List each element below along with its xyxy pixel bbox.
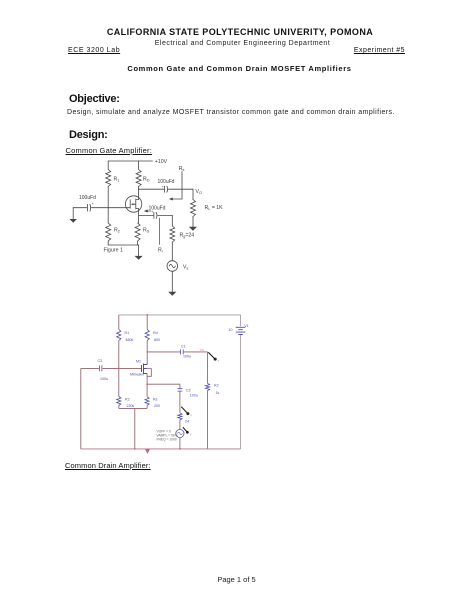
svg-text:Rg=24: Rg=24 [180, 233, 195, 239]
svg-text:24: 24 [185, 420, 189, 424]
ground below RL [189, 227, 197, 231]
wire cap to Vo node [168, 188, 193, 190]
wire Rg to source Vs [171, 242, 173, 261]
svg-text:230k: 230k [127, 404, 135, 408]
svg-text:FREQ = 1000: FREQ = 1000 [157, 438, 177, 442]
ground 0 pspice [145, 449, 150, 454]
svg-text:R2: R2 [125, 398, 130, 402]
battery V1 [236, 327, 246, 334]
experiment label [354, 47, 405, 54]
svg-text:v: v [190, 413, 192, 417]
wire Rs branch [146, 384, 148, 408]
transistor gate bar [129, 200, 131, 208]
ground input [70, 219, 77, 223]
wire gate left [91, 207, 130, 209]
resistor Rd pspice [145, 330, 149, 341]
svg-text:C3: C3 [98, 359, 103, 363]
wire bottom rail [81, 448, 241, 450]
probe vs marker [183, 427, 187, 431]
svg-text:RL = 1K: RL = 1K [205, 205, 224, 211]
svg-text:800: 800 [154, 338, 160, 342]
transistor bulk arrow [132, 203, 136, 205]
capacitor C2 [178, 389, 183, 391]
wire RL to ground [192, 217, 194, 228]
svg-text:1k: 1k [216, 391, 220, 395]
wire top rail [119, 314, 241, 316]
transistor M1 circle [125, 196, 141, 212]
resistor R2 pspice [117, 397, 121, 406]
Design heading [69, 129, 108, 141]
svg-text:R2: R2 [214, 384, 219, 388]
junction dot gate node [118, 368, 120, 370]
wire top rail +10V [108, 160, 152, 162]
resistor R2 load pspice [205, 383, 209, 390]
svg-text:Rd: Rd [153, 331, 158, 335]
transistor M1 pspice [142, 364, 148, 375]
svg-text:Vo: Vo [200, 348, 204, 352]
wire source down to Rs [138, 215, 140, 223]
wire cap to Rg corner [158, 215, 173, 226]
probe source marker [181, 407, 187, 413]
capacitor source 100uFd [153, 212, 155, 218]
svg-text:C2: C2 [186, 389, 191, 393]
svg-text:v: v [190, 432, 192, 436]
svg-text:Figure 1: Figure 1 [104, 248, 123, 254]
svg-text:480k: 480k [126, 338, 134, 342]
svg-text:10: 10 [229, 328, 233, 332]
wire Rs bottom [137, 241, 139, 245]
wire bottom rail [108, 244, 138, 246]
Objective heading [69, 93, 120, 105]
svg-text:R1: R1 [125, 331, 130, 335]
header title [0, 27, 474, 37]
wire input to C3 [81, 367, 99, 369]
course label [68, 47, 120, 54]
wire Vo down to RL [192, 189, 194, 199]
resistor Rs pspice [145, 397, 149, 406]
svg-text:200: 200 [154, 404, 160, 408]
svg-text:+10V: +10V [155, 159, 168, 165]
svg-text:+: + [151, 210, 153, 214]
wire output [147, 351, 207, 353]
annotation source arrow [147, 210, 151, 212]
junction dot source node [146, 383, 148, 385]
svg-text:Rs: Rs [153, 398, 158, 402]
wire load branch [207, 352, 209, 449]
svg-text:VO: VO [196, 189, 202, 195]
svg-text:M1: M1 [136, 360, 141, 364]
common drain caption [65, 461, 151, 470]
resistor Rg=24 [170, 226, 175, 242]
wire left input vertical [80, 368, 82, 449]
wire source node [147, 374, 180, 413]
annotation Rs arrow [172, 172, 182, 200]
svg-text:C1: C1 [181, 345, 186, 349]
annotation Ri line [159, 218, 161, 245]
wire drain lead [136, 189, 139, 199]
svg-text:RD: RD [143, 177, 150, 183]
svg-text:100u: 100u [100, 377, 108, 381]
wire R1 to R2 through gate node [107, 187, 109, 224]
svg-text:Ri: Ri [158, 248, 163, 254]
ground below bottom rail [138, 245, 140, 256]
svg-text:R1: R1 [114, 177, 120, 183]
wire R2 bottom [107, 241, 109, 245]
wire Rd branch [146, 315, 148, 364]
wire input to ground [73, 207, 86, 209]
page footer [0, 575, 473, 584]
svg-text:RS: RS [143, 228, 150, 234]
department line [0, 40, 474, 47]
junction dot bottom mid [134, 448, 136, 450]
svg-text:Vs: Vs [183, 265, 188, 271]
transistor channel bar [135, 199, 137, 209]
wire bottom connector [119, 408, 147, 449]
wire drain to output cap [139, 188, 164, 190]
svg-text:100u: 100u [190, 394, 198, 398]
wire C3 to gate [103, 367, 141, 369]
wire Vs to ground [171, 271, 173, 292]
wire below 24 to sine [179, 420, 181, 449]
wire source to cap [139, 214, 154, 216]
source Vsin circle [176, 429, 184, 437]
wire R1 branch top [107, 161, 109, 170]
junction dot top rail [146, 314, 148, 316]
resistor 24 pspice [178, 413, 182, 420]
svg-text:v: v [218, 359, 220, 363]
source Vs circle [167, 261, 178, 272]
transistor source lead [136, 209, 139, 216]
svg-text:100u: 100u [183, 355, 191, 359]
probe Vo marker [208, 352, 214, 358]
capacitor C3 [100, 365, 102, 371]
wire bulk loop [147, 369, 151, 377]
junction dot drain node [146, 351, 148, 353]
junction dot vs bottom [179, 448, 181, 450]
capacitor output 100uFd [164, 186, 166, 192]
capacitor C1 [181, 349, 184, 354]
svg-text:100uFd: 100uFd [158, 179, 175, 185]
wire R1 branch [118, 315, 120, 409]
capacitor input 100uFd [87, 204, 89, 211]
resistor RL [191, 200, 196, 217]
wire RD to drain node [138, 187, 140, 190]
common gate caption [66, 146, 153, 155]
ground below Vs [168, 292, 176, 296]
resistor R1 pspice [117, 330, 121, 341]
svg-text:+: + [92, 201, 95, 206]
document title [0, 64, 474, 73]
wire battery branch [240, 315, 242, 449]
svg-text:R2: R2 [114, 228, 120, 234]
svg-text:V1: V1 [244, 324, 248, 328]
resistor RD [136, 170, 141, 187]
resistor R2 [106, 223, 111, 241]
objective body [67, 109, 395, 116]
wire RD branch top [138, 161, 140, 170]
resistor Rs source [135, 223, 140, 241]
svg-text:Rs: Rs [179, 166, 185, 172]
resistor R1 [106, 170, 111, 187]
svg-text:Mbreakn: Mbreakn [130, 373, 144, 377]
